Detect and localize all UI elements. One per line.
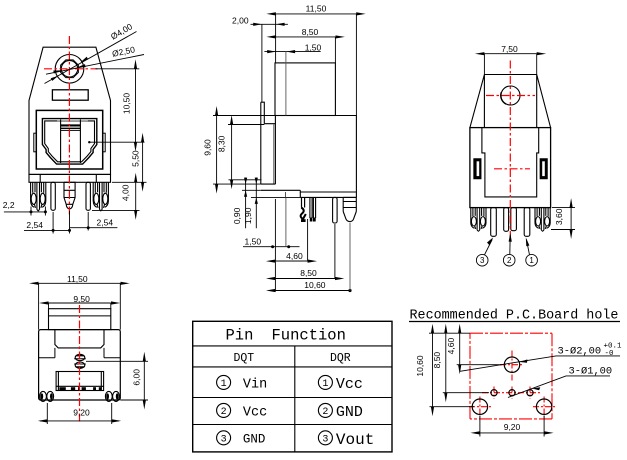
svg-text:8,50: 8,50 <box>302 27 319 37</box>
svg-text:1: 1 <box>322 379 328 390</box>
svg-text:Vin: Vin <box>243 378 267 393</box>
svg-text:8,50: 8,50 <box>432 352 442 369</box>
svg-text:2: 2 <box>322 407 328 418</box>
svg-text:8,50: 8,50 <box>300 268 317 278</box>
svg-text:3: 3 <box>480 256 485 265</box>
svg-text:5,50: 5,50 <box>131 150 141 167</box>
svg-text:10,60: 10,60 <box>415 355 425 377</box>
svg-text:0,90: 0,90 <box>232 207 242 224</box>
svg-text:1,50: 1,50 <box>305 42 322 52</box>
svg-text:1: 1 <box>529 256 534 265</box>
svg-text:7,50: 7,50 <box>501 44 518 54</box>
svg-text:9,20: 9,20 <box>73 408 90 418</box>
svg-text:Function: Function <box>272 327 346 345</box>
svg-text:2,54: 2,54 <box>26 220 43 230</box>
svg-text:4,60: 4,60 <box>286 251 303 261</box>
svg-text:10,60: 10,60 <box>304 280 326 290</box>
svg-text:11,50: 11,50 <box>306 4 327 14</box>
svg-text:DQT: DQT <box>233 352 254 365</box>
svg-text:Vcc: Vcc <box>336 376 363 393</box>
svg-text:3-Ø2,00: 3-Ø2,00 <box>558 346 602 358</box>
svg-text:Pin: Pin <box>226 327 254 345</box>
svg-text:9,20: 9,20 <box>504 422 521 432</box>
svg-text:DQR: DQR <box>330 352 351 365</box>
svg-text:Vout: Vout <box>336 431 374 449</box>
svg-text:1,50: 1,50 <box>245 236 262 246</box>
svg-text:4,00: 4,00 <box>121 184 131 201</box>
svg-text:1,90: 1,90 <box>243 207 253 224</box>
svg-text:6,00: 6,00 <box>132 369 142 386</box>
svg-text:-0: -0 <box>605 350 615 358</box>
svg-text:GND: GND <box>243 433 266 447</box>
svg-text:10,50: 10,50 <box>122 93 132 115</box>
svg-text:8,30: 8,30 <box>217 135 227 152</box>
svg-text:2,54: 2,54 <box>97 218 114 228</box>
svg-text:Vcc: Vcc <box>243 406 267 421</box>
svg-text:GND: GND <box>336 404 363 421</box>
svg-text:3-Ø1,00: 3-Ø1,00 <box>569 366 613 378</box>
svg-text:3: 3 <box>221 434 227 445</box>
svg-text:2,2: 2,2 <box>3 200 15 210</box>
svg-text:11,50: 11,50 <box>67 274 88 284</box>
svg-text:2,00: 2,00 <box>232 16 249 26</box>
svg-text:9,50: 9,50 <box>73 294 90 304</box>
svg-text:4,60: 4,60 <box>446 338 456 355</box>
svg-text:1: 1 <box>221 379 227 390</box>
svg-text:3: 3 <box>322 434 328 445</box>
svg-text:2: 2 <box>221 407 227 418</box>
svg-text:3,60: 3,60 <box>554 208 564 225</box>
svg-text:9,60: 9,60 <box>203 139 213 156</box>
svg-text:2: 2 <box>507 256 512 265</box>
